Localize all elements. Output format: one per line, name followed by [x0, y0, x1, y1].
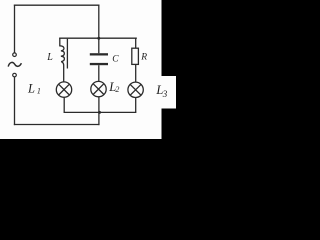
capacitor plate top [90, 53, 108, 55]
wire left drop to source [14, 5, 16, 53]
resistor wire upper [135, 38, 137, 48]
svg-text:R: R [140, 53, 147, 63]
wire riser [98, 112, 100, 124]
resistor wire lower [135, 64, 137, 82]
capacitor wire lower [98, 65, 100, 81]
wire top rail [15, 4, 99, 6]
paper background [0, 0, 176, 139]
wire inner rail [60, 37, 136, 39]
lamp L2 [91, 81, 106, 96]
svg-text:3: 3 [162, 89, 168, 99]
lamp L1 [56, 82, 71, 97]
wire lamp L1 bottom [63, 97, 65, 112]
svg-text:L: L [46, 52, 53, 63]
capacitor plate bottom [90, 63, 108, 65]
inductor L coil [60, 38, 65, 82]
AC source tilde [8, 62, 21, 66]
wire lamp L3 bottom [135, 98, 137, 113]
svg-text:C: C [112, 55, 119, 65]
capacitor wire upper [98, 38, 100, 53]
junction node at sub-rail [98, 111, 101, 114]
wire bottom rail [15, 124, 99, 126]
lamp L3 [128, 82, 143, 97]
inductor core line [66, 39, 68, 69]
svg-text:L: L [27, 81, 35, 95]
junction node at inner rail [97, 37, 100, 40]
wire lamp sub-rail [64, 111, 136, 113]
AC source terminal bottom [13, 73, 17, 77]
svg-text:2: 2 [115, 85, 119, 94]
wire lamp L2 bottom [98, 97, 100, 113]
AC source terminal top [13, 53, 17, 57]
resistor R body [132, 48, 139, 64]
wire left lower [14, 77, 16, 125]
wire top-mid drop [98, 5, 100, 38]
svg-text:1: 1 [37, 86, 41, 95]
